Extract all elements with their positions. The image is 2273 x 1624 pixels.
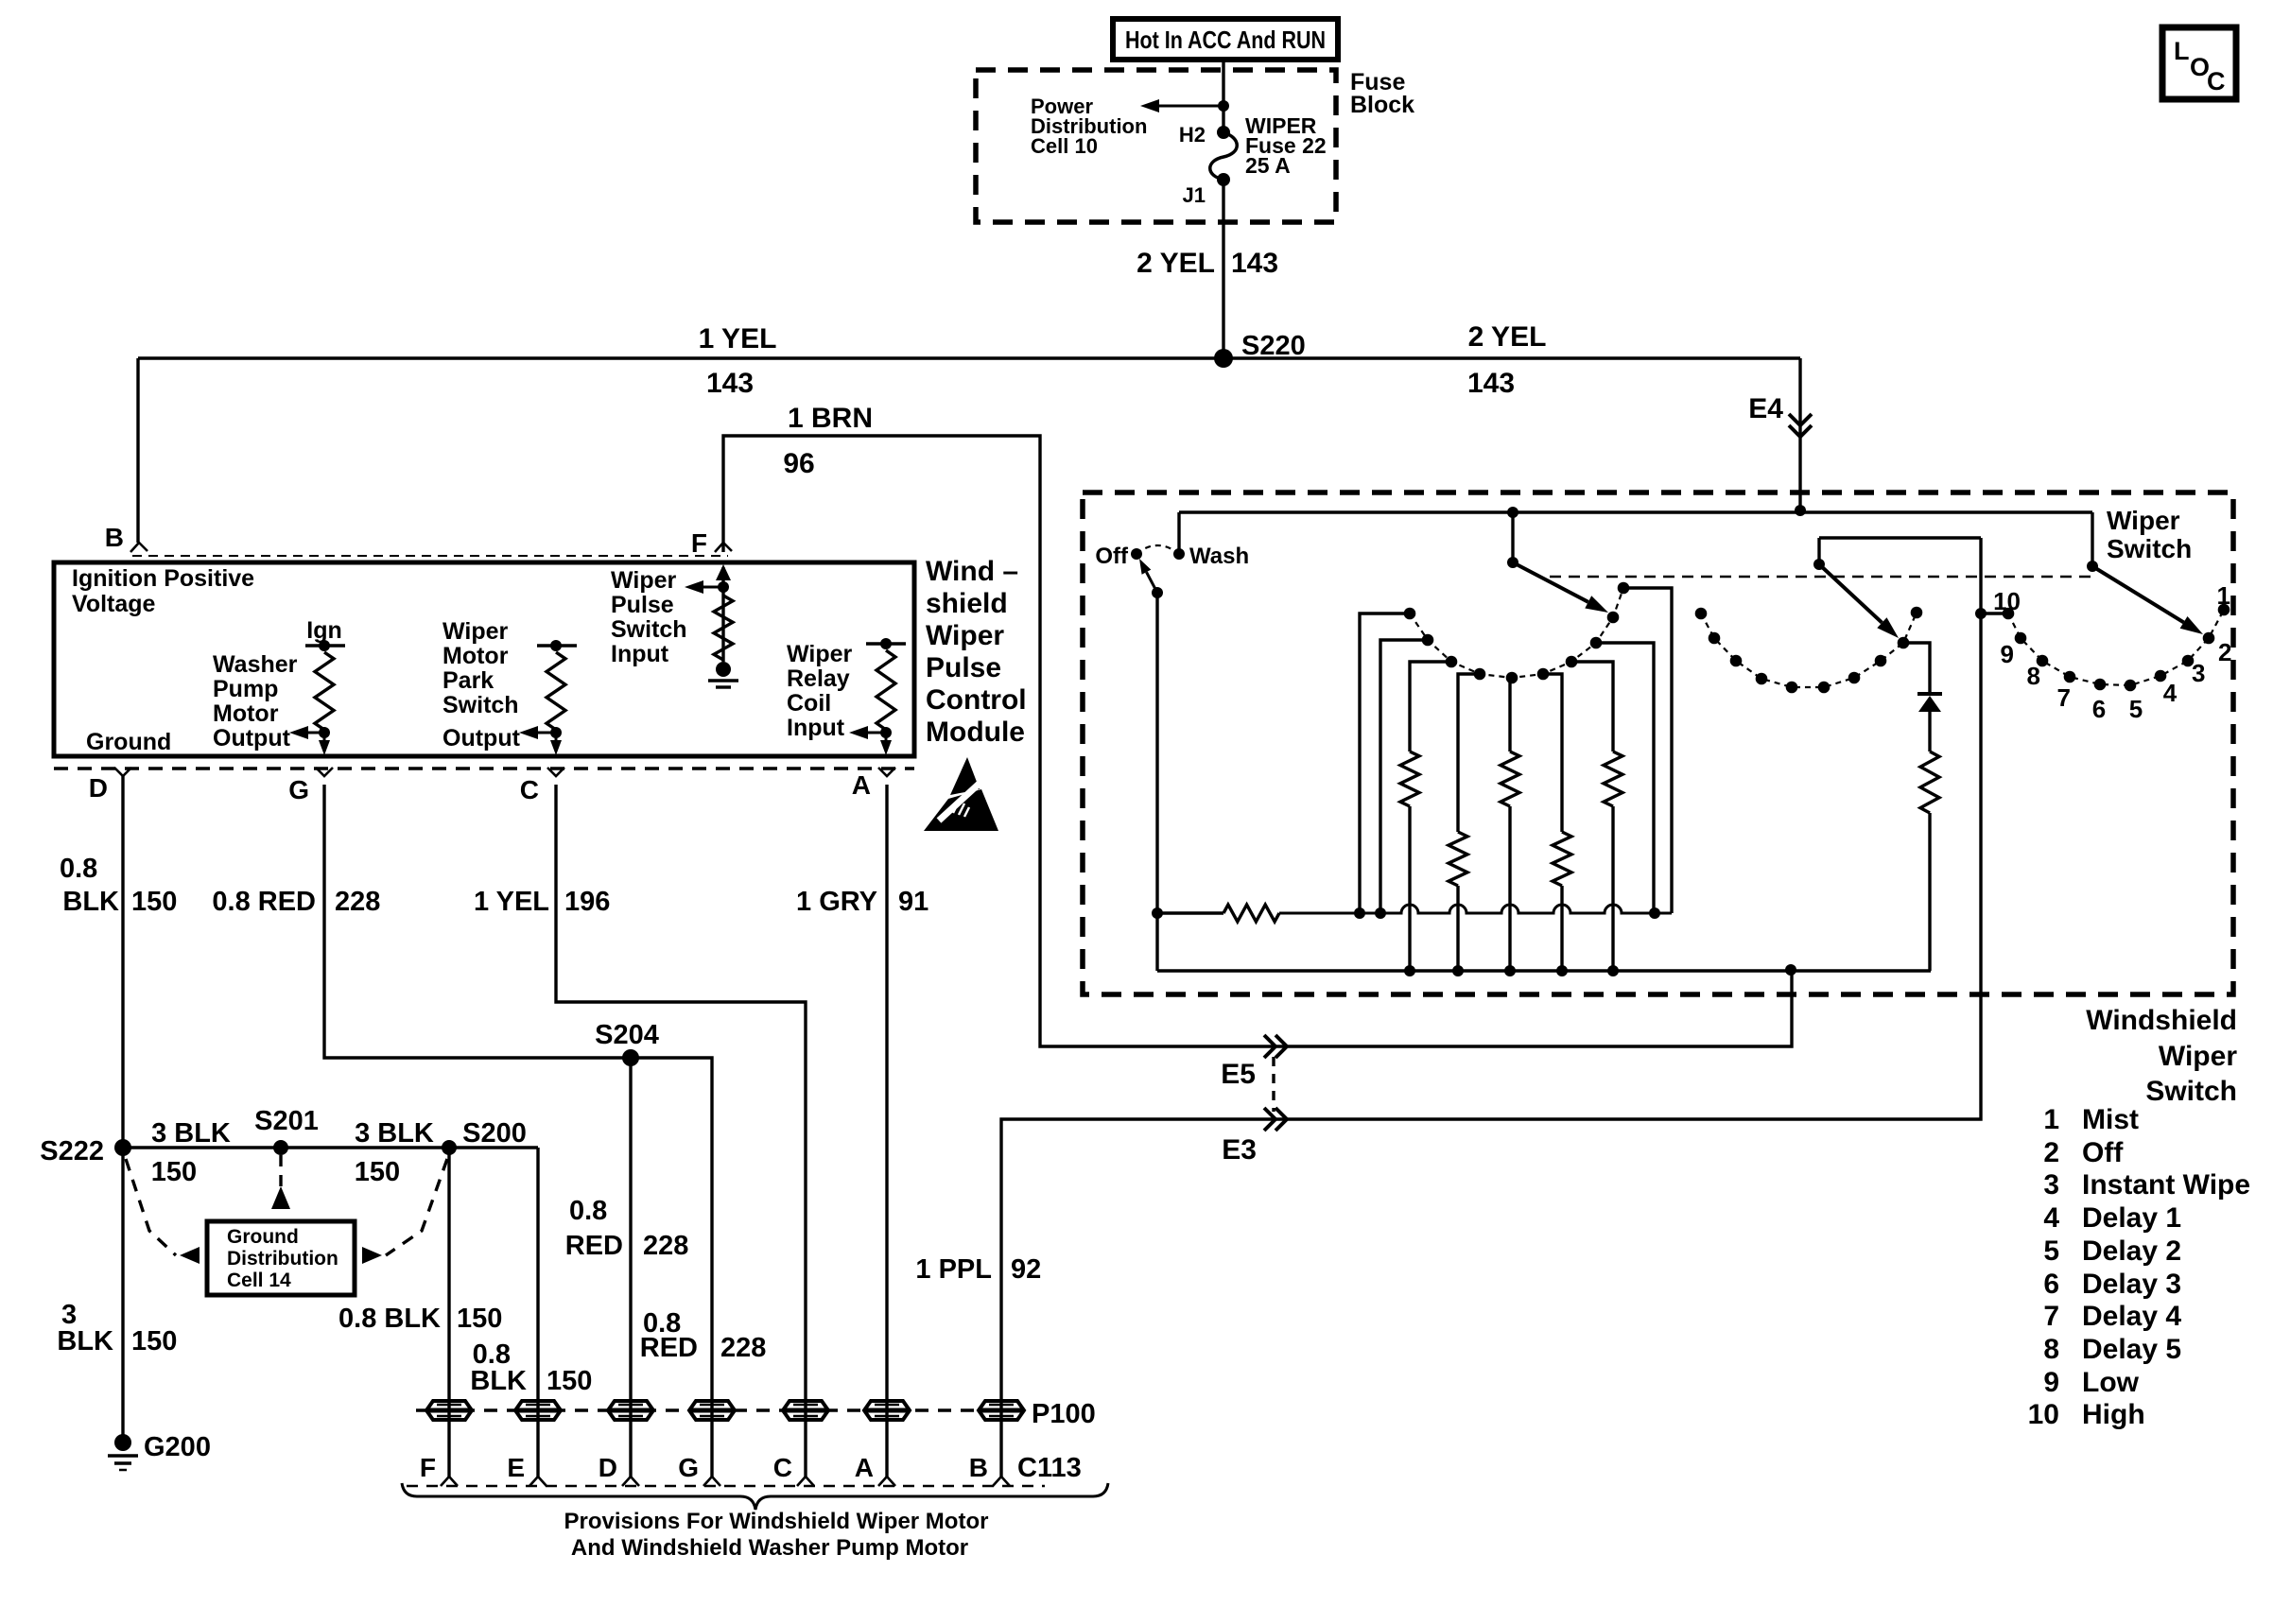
connector P100 grommet at x=852: [783, 1401, 828, 1420]
pin B: [130, 543, 147, 552]
junction at contact 10 branch: [1975, 608, 1987, 619]
svg-text:228: 228: [335, 887, 380, 917]
dashed link E5-E3: [1272, 1057, 1275, 1112]
wire 1 GRY 91 (A to C113 A): [885, 785, 888, 1477]
svg-text:1 YEL: 1 YEL: [699, 323, 777, 354]
svg-text:3 BLK: 3 BLK: [151, 1118, 231, 1149]
svg-text:BLK: BLK: [470, 1366, 527, 1396]
svg-text:Delay 5: Delay 5: [2082, 1334, 2181, 1365]
svg-text:Cell 10: Cell 10: [1031, 134, 1098, 158]
svg-text:91: 91: [898, 887, 928, 917]
windshield wiper switch box (dashed): [1083, 492, 2233, 994]
svg-text:96: 96: [783, 448, 814, 479]
node S220: [1214, 349, 1233, 368]
wire to arm 4 pivot: [2091, 512, 2093, 566]
pin G: [316, 768, 333, 776]
wire: off contact to resistor bus: [1155, 593, 1158, 971]
wire 0.8 RED 228 (G to S204 to C113 G): [324, 785, 712, 1477]
svg-text:Off: Off: [2082, 1137, 2124, 1168]
ground distribution cell 14 box: [207, 1221, 355, 1295]
svg-text:Switch: Switch: [442, 692, 519, 718]
resistor branch d (contact 6): [1543, 674, 1562, 832]
svg-text:Cell 14: Cell 14: [227, 1270, 291, 1291]
svg-text:228: 228: [643, 1231, 688, 1261]
svg-text:9: 9: [2001, 640, 2014, 668]
svg-text:7: 7: [2057, 683, 2071, 712]
svg-text:196: 196: [564, 887, 610, 917]
svg-text:Wash: Wash: [1189, 544, 1249, 569]
svg-text:Ground: Ground: [86, 729, 171, 755]
resistor branch b (contact 4): [1458, 674, 1480, 832]
connector P100 grommet at x=569: [515, 1401, 561, 1420]
middle contact arc: [1701, 613, 1917, 687]
pin D of C113: [622, 1477, 639, 1486]
svg-text:Wiper: Wiper: [926, 620, 1004, 651]
ESD warning symbol: [924, 757, 998, 831]
node J1: [1217, 173, 1230, 186]
svg-text:4: 4: [2043, 1202, 2059, 1234]
dashed mechanical link line: [1550, 576, 2092, 579]
resistor branch a (contact 3): [1410, 662, 1451, 752]
svg-text:7: 7: [2043, 1301, 2059, 1332]
wire: contact 8 to bus: [1596, 643, 1654, 913]
node H2: [1217, 126, 1230, 139]
svg-text:Module: Module: [926, 717, 1025, 748]
svg-text:Ground: Ground: [227, 1226, 299, 1248]
svg-text:C: C: [773, 1453, 792, 1482]
svg-text:2 YEL: 2 YEL: [1136, 248, 1215, 279]
svg-text:3: 3: [2043, 1169, 2059, 1201]
svg-text:A: A: [852, 770, 871, 800]
svg-text:5: 5: [2129, 695, 2143, 723]
svg-text:143: 143: [1231, 248, 1278, 279]
svg-text:E: E: [507, 1453, 525, 1482]
resistor branch c (contact 5): [1508, 678, 1511, 752]
svg-text:Control: Control: [926, 684, 1027, 716]
svg-text:Delay 3: Delay 3: [2082, 1269, 2181, 1300]
wire: arm3 pivot to high-speed branch: [1819, 536, 1981, 539]
pin B of C113: [993, 1477, 1010, 1486]
svg-text:Pulse: Pulse: [926, 652, 1001, 683]
switch arm 3: [1817, 538, 1820, 564]
wire to Wash contact: [1177, 512, 1180, 554]
svg-text:High: High: [2082, 1399, 2145, 1430]
connector P100 grommet at x=1059: [979, 1401, 1024, 1420]
svg-text:143: 143: [706, 368, 754, 399]
svg-text:Ignition Positive: Ignition Positive: [72, 565, 254, 592]
svg-text:Motor: Motor: [442, 643, 509, 669]
svg-text:S201: S201: [254, 1106, 319, 1136]
pin A: [878, 768, 895, 776]
wire: hot feed into fuse block: [1222, 60, 1224, 132]
node S200: [442, 1140, 457, 1155]
svg-text:C: C: [2207, 67, 2226, 95]
svg-text:E5: E5: [1221, 1059, 1256, 1090]
svg-text:1 PPL: 1 PPL: [915, 1254, 992, 1285]
svg-text:J1: J1: [1183, 183, 1206, 207]
pin E of C113: [529, 1477, 547, 1486]
node S204: [622, 1049, 639, 1066]
switch arm 2: [1507, 557, 1518, 568]
svg-text:1: 1: [2043, 1104, 2059, 1135]
svg-text:Relay: Relay: [787, 665, 850, 692]
svg-text:RED: RED: [640, 1333, 698, 1363]
svg-text:8: 8: [2027, 662, 2040, 690]
svg-text:Output: Output: [213, 725, 291, 752]
pin A of C113: [878, 1477, 895, 1486]
svg-text:2 YEL: 2 YEL: [1468, 321, 1547, 353]
wire: switch feed bus: [1179, 510, 2092, 513]
svg-text:Instant Wipe: Instant Wipe: [2082, 1169, 2250, 1201]
svg-text:1 YEL: 1 YEL: [474, 887, 549, 917]
svg-text:Input: Input: [611, 641, 669, 667]
wire 2 YEL 143 (fuse to S220): [1222, 180, 1224, 358]
LOC logo box: [2162, 27, 2236, 99]
svg-text:92: 92: [1011, 1254, 1041, 1285]
svg-text:P100: P100: [1032, 1399, 1096, 1429]
junction E4 feed: [1795, 505, 1806, 516]
svg-text:Ign: Ign: [306, 617, 342, 644]
svg-text:C113: C113: [1017, 1453, 1082, 1483]
wire to arm 2 pivot: [1511, 512, 1514, 562]
svg-text:Coil: Coil: [787, 690, 831, 717]
svg-text:BLK: BLK: [62, 887, 119, 917]
switch arm 4: [2087, 561, 2098, 572]
svg-text:Switch: Switch: [2145, 1076, 2237, 1107]
svg-text:2: 2: [2043, 1137, 2059, 1168]
wire 1 BRN 96 (pin F to E5 to wiper switch): [723, 436, 1792, 1046]
connector E3: [1264, 1108, 1287, 1131]
svg-text:Washer: Washer: [213, 651, 298, 678]
svg-text:shield: shield: [926, 588, 1008, 619]
svg-text:150: 150: [131, 887, 177, 917]
svg-text:Delay 1: Delay 1: [2082, 1202, 2181, 1234]
svg-text:D: D: [89, 773, 108, 803]
connector P100 grommet at x=753: [689, 1401, 735, 1420]
svg-text:Wiper: Wiper: [2159, 1041, 2237, 1072]
wire to E4: [1798, 358, 1801, 510]
svg-text:H2: H2: [1179, 123, 1206, 147]
svg-text:Switch: Switch: [2107, 534, 2192, 563]
lower bus: [1157, 969, 1931, 972]
diode: [1917, 692, 1942, 696]
svg-text:150: 150: [457, 1304, 502, 1334]
dashed branch S200 to ground distribution: [386, 1159, 447, 1255]
svg-text:0.8 RED: 0.8 RED: [212, 887, 316, 917]
node S201: [273, 1140, 288, 1155]
diode branch from middle arc: [1903, 643, 1930, 694]
Off and Wash contacts: [1131, 548, 1142, 560]
svg-text:4: 4: [2163, 679, 2178, 707]
svg-text:150: 150: [355, 1157, 400, 1187]
wiper motor park switch output branch: [537, 644, 577, 647]
svg-text:Provisions For Windshield Wipe: Provisions For Windshield Wiper Motor: [564, 1509, 989, 1534]
svg-text:228: 228: [720, 1333, 766, 1363]
right contact arc (positions 1-10): [2008, 610, 2224, 685]
svg-text:F: F: [420, 1453, 436, 1482]
svg-text:S204: S204: [595, 1020, 659, 1050]
svg-text:25 A: 25 A: [1245, 153, 1291, 178]
svg-text:C: C: [520, 775, 539, 804]
svg-text:2: 2: [2218, 638, 2231, 666]
svg-text:Pulse: Pulse: [611, 592, 674, 618]
svg-text:S200: S200: [462, 1118, 527, 1149]
wire 1 YEL 196 (C to C113 C): [556, 785, 806, 1477]
pin C: [547, 768, 564, 776]
svg-text:RED: RED: [565, 1231, 623, 1261]
svg-text:Delay 2: Delay 2: [2082, 1235, 2181, 1267]
svg-text:Wind –: Wind –: [926, 556, 1018, 587]
svg-text:5: 5: [2043, 1235, 2059, 1267]
svg-text:Windshield: Windshield: [2086, 1005, 2237, 1036]
svg-text:10: 10: [2028, 1399, 2059, 1430]
svg-text:9: 9: [2043, 1367, 2059, 1398]
wire: contact 2 to bus: [1380, 640, 1428, 913]
wiper relay coil input branch: [866, 642, 906, 645]
upper bus with series resistor: [1157, 911, 1223, 914]
svg-text:S220: S220: [1241, 331, 1306, 361]
switch arm (wash/off): [1152, 587, 1163, 598]
svg-text:Wiper: Wiper: [442, 618, 508, 645]
svg-text:Switch: Switch: [611, 616, 687, 643]
svg-text:3: 3: [2192, 659, 2205, 687]
svg-text:Motor: Motor: [213, 700, 279, 727]
ground bus 3 BLK 150: [123, 1146, 538, 1149]
svg-text:Pump: Pump: [213, 676, 278, 702]
svg-text:1: 1: [2217, 581, 2230, 610]
svg-text:Low: Low: [2082, 1367, 2140, 1398]
svg-text:B: B: [105, 523, 124, 552]
connector P100 grommet at x=475: [426, 1401, 472, 1420]
wire: contact 1 to bus: [1360, 613, 1410, 913]
pin D: [114, 768, 131, 776]
ground G200: [114, 1434, 131, 1451]
svg-text:0.8 BLK: 0.8 BLK: [338, 1304, 441, 1334]
svg-text:6: 6: [2043, 1269, 2059, 1300]
svg-text:A: A: [855, 1453, 874, 1482]
node S222: [114, 1139, 131, 1156]
svg-text:F: F: [691, 528, 707, 558]
svg-text:Wiper: Wiper: [787, 641, 852, 667]
svg-text:Distribution: Distribution: [227, 1248, 338, 1270]
pin C of C113: [797, 1477, 814, 1486]
svg-text:10: 10: [1993, 587, 2021, 615]
svg-text:6: 6: [2092, 695, 2106, 723]
svg-text:Off: Off: [1095, 544, 1129, 569]
wire 0.8 RED 228 (S204 to C113 D): [629, 1058, 632, 1477]
svg-text:Input: Input: [787, 715, 845, 741]
connector P100 grommet at x=938: [864, 1401, 910, 1420]
svg-text:G: G: [678, 1453, 699, 1482]
svg-text:S222: S222: [40, 1136, 104, 1166]
svg-text:E4: E4: [1748, 393, 1783, 424]
svg-text:1 GRY: 1 GRY: [796, 887, 877, 917]
svg-text:3 BLK: 3 BLK: [355, 1118, 434, 1149]
provisions brace: [402, 1483, 1108, 1510]
fuse WIPER Fuse 22 25 A: [1210, 132, 1238, 180]
pin F of C113: [441, 1477, 458, 1486]
wire 0.8 BLK 150 / 3 BLK 150 (D to G200): [121, 776, 124, 1443]
windshield wiper pulse control module box: [54, 562, 914, 756]
svg-text:1 BRN: 1 BRN: [788, 403, 873, 434]
svg-text:Mist: Mist: [2082, 1104, 2139, 1135]
dashed branch S222 to ground distribution: [126, 1159, 176, 1255]
svg-text:BLK: BLK: [57, 1326, 113, 1356]
svg-text:Wiper: Wiper: [2107, 506, 2180, 535]
svg-text:150: 150: [547, 1366, 592, 1396]
svg-text:L: L: [2174, 37, 2190, 65]
svg-text:And Windshield Washer Pump Mot: And Windshield Washer Pump Motor: [571, 1535, 968, 1561]
wire 0.8 BLK 150 (S200 to C113 F): [447, 1148, 450, 1477]
module bottom connector dashed line: [54, 767, 914, 770]
svg-text:0.8: 0.8: [60, 854, 97, 884]
svg-text:E3: E3: [1222, 1134, 1257, 1166]
svg-text:Delay 4: Delay 4: [2082, 1301, 2181, 1332]
label box: Hot In ACC And RUN: [1113, 19, 1338, 60]
resistor branch e (contact 7): [1571, 662, 1613, 752]
dashed arrow S201 to ground distribution: [279, 1155, 282, 1189]
bus wire 1 YEL / 2 YEL 143: [138, 356, 1800, 359]
svg-text:143: 143: [1467, 368, 1515, 399]
svg-text:Voltage: Voltage: [72, 591, 156, 617]
svg-text:B: B: [969, 1453, 988, 1482]
junction on hot feed: [1218, 100, 1229, 112]
arrow: power distribution feed: [1159, 105, 1223, 108]
connector C113 dashed line: [407, 1485, 1045, 1488]
wire 0.8 BLK 150 (to pin E): [536, 1148, 539, 1477]
svg-text:150: 150: [131, 1326, 177, 1356]
junction arm 2 feed: [1507, 507, 1518, 518]
svg-text:Hot In ACC And RUN: Hot In ACC And RUN: [1125, 26, 1326, 54]
svg-text:0.8: 0.8: [569, 1196, 607, 1226]
pin F: [715, 543, 732, 552]
svg-text:Block: Block: [1350, 92, 1414, 118]
svg-text:150: 150: [151, 1157, 197, 1187]
svg-text:D: D: [599, 1453, 617, 1482]
resistor on diode branch: [1920, 752, 1939, 813]
bulkhead connector P100 dashed line: [416, 1408, 1021, 1411]
svg-text:8: 8: [2043, 1334, 2059, 1365]
svg-text:G200: G200: [144, 1432, 211, 1462]
wiper pulse switch input branch: [721, 567, 724, 662]
svg-text:G: G: [288, 775, 309, 804]
connector P100 grommet at x=667: [608, 1401, 653, 1420]
module top connector dashed line: [132, 555, 728, 557]
svg-text:Wiper: Wiper: [611, 567, 676, 594]
fuse block (dashed box): [976, 70, 1336, 222]
wire: contact 9 to bus: [1623, 588, 1672, 913]
wire 1 PPL 92 (wiper switch through E3 to C113 B): [1001, 538, 1981, 1477]
wire to pin B: [136, 358, 139, 543]
pin G of C113: [703, 1477, 720, 1486]
connector E5: [1264, 1035, 1287, 1058]
svg-text:Park: Park: [442, 667, 494, 694]
left contact arc (delay contacts): [1410, 588, 1623, 678]
svg-text:Output: Output: [442, 725, 521, 752]
